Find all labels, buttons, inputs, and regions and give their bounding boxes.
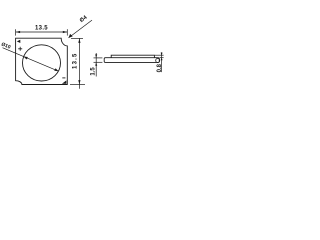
side view base slab bbox=[104, 58, 159, 63]
diameter leader line Ø10 bbox=[3, 48, 59, 71]
svg-text:1.5: 1.5 bbox=[91, 67, 97, 76]
right dimension extension line bottom bbox=[70, 84, 85, 86]
side view end circle bbox=[156, 59, 160, 63]
corner index triangle (bottom-right) bbox=[62, 80, 67, 83]
top dimension line bbox=[16, 31, 68, 33]
top dimension extension line right bbox=[66, 29, 68, 35]
layer 0.8 arrow upper bbox=[161, 53, 163, 56]
svg-text:0.8: 0.8 bbox=[157, 63, 163, 72]
svg-text:13.5: 13.5 bbox=[73, 52, 79, 68]
layer 0.8 arrow lower bbox=[161, 58, 163, 61]
top dimension arrow left bbox=[16, 31, 21, 33]
arrowhead upper-left on circle bbox=[24, 57, 28, 60]
corner index triangle (top-left) bbox=[17, 40, 21, 43]
side view top layer bbox=[111, 55, 154, 58]
thickness 1.5 dimension line bbox=[95, 53, 97, 77]
minus polarity mark bbox=[62, 77, 65, 79]
top dimension extension line left bbox=[15, 29, 17, 35]
thickness 1.5 arrow upper bbox=[95, 54, 97, 58]
plus polarity mark bbox=[18, 47, 22, 51]
thickness 1.5 extension tick bottom bbox=[94, 61, 103, 63]
right dimension arrow bottom bbox=[78, 80, 80, 85]
arrowhead at notch bbox=[69, 34, 73, 38]
right dimension extension line top bbox=[71, 37, 83, 39]
layer 0.8 dimension line bbox=[161, 52, 163, 72]
thickness 1.5 extension tick top bbox=[94, 57, 103, 59]
svg-text:13.5: 13.5 bbox=[35, 25, 48, 31]
board outline (square with corner notches) bbox=[16, 38, 68, 84]
right dimension line bbox=[78, 38, 80, 88]
arrowhead lower-right on circle bbox=[54, 68, 58, 71]
layer 0.8 extension line bottom bbox=[160, 57, 164, 59]
layer 0.8 extension line top bbox=[155, 54, 164, 56]
right dimension arrow top bbox=[78, 38, 80, 43]
circle Ø10 bbox=[23, 45, 61, 81]
thickness 1.5 arrow lower bbox=[95, 62, 97, 66]
top dimension arrow right bbox=[63, 31, 68, 33]
leader line Ø4 bbox=[69, 20, 93, 38]
